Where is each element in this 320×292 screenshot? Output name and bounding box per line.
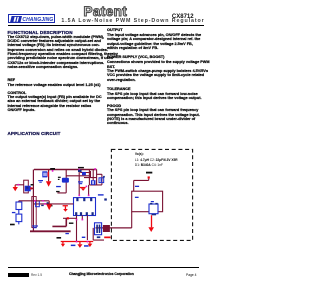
label node B xyxy=(78,167,84,168)
wire inner loop xyxy=(66,170,102,185)
capacitor C8 electrolytic xyxy=(95,223,102,235)
pin 1 xyxy=(76,198,78,201)
wire red ground bus xyxy=(61,241,93,243)
pin 4 xyxy=(75,212,77,215)
capacitor C6 xyxy=(99,178,104,183)
wire SW out xyxy=(96,227,132,229)
option loop xyxy=(132,191,163,212)
label R3 xyxy=(41,205,44,206)
pin 5 xyxy=(80,212,82,215)
wire out right xyxy=(93,228,104,240)
title xyxy=(61,18,204,24)
node J12 magenta xyxy=(82,219,84,221)
wire option link xyxy=(131,212,133,228)
APPLICATION CIRCUIT heading xyxy=(8,131,61,136)
wire to C5 xyxy=(92,170,94,181)
FUNCTIONAL DESCRIPTION heading xyxy=(8,30,73,35)
left column paragraph 1 xyxy=(8,35,118,70)
part number xyxy=(172,14,194,20)
label U1 VOUT xyxy=(98,194,104,195)
label c9v xyxy=(151,201,154,202)
label C9 xyxy=(135,186,139,187)
transistor Q1 xyxy=(62,178,69,183)
ground G6 xyxy=(79,242,81,245)
svg-text:D1: B340A C4: 1nF: D1: B340A C4: 1nF xyxy=(135,163,163,167)
ground G9 xyxy=(151,215,153,227)
capacitor C7 xyxy=(32,225,38,226)
node J2 magenta xyxy=(78,169,80,171)
ground G5 red bar xyxy=(104,237,110,239)
left column CONTROL xyxy=(8,91,27,95)
wire option in xyxy=(134,179,149,192)
wire U1 pin5 down xyxy=(81,215,83,219)
wire ground bus xyxy=(30,230,71,232)
node J9 magenta xyxy=(34,200,36,202)
wire left loop xyxy=(32,197,36,228)
node J5 magenta xyxy=(86,186,88,188)
label L2 xyxy=(135,197,139,198)
wire divider top xyxy=(19,201,49,202)
wire top right jog xyxy=(80,171,96,178)
wire to IC pin VIN xyxy=(78,170,80,196)
transistor Q2 xyxy=(25,186,31,192)
label C6 xyxy=(103,176,105,178)
dashed option box xyxy=(111,149,192,240)
patent watermark xyxy=(84,4,128,19)
wire branch x66 xyxy=(57,170,66,193)
node J8 magenta xyxy=(44,203,46,205)
logo xyxy=(8,14,55,23)
node A red xyxy=(30,187,32,189)
pin 3 xyxy=(90,198,92,201)
resistor R3 xyxy=(36,201,40,207)
node J4 magenta xyxy=(18,184,20,186)
node J13 magenta xyxy=(76,241,78,243)
ground G4 xyxy=(48,201,50,205)
wire to IC pin BST xyxy=(88,185,90,195)
label comp xyxy=(69,223,74,224)
wire comp xyxy=(63,217,77,219)
wire FB to U1 xyxy=(33,203,73,205)
footer left black bar xyxy=(8,273,29,276)
capacitor C4 xyxy=(78,181,83,182)
svg-text:Vo(s):: Vo(s): xyxy=(135,152,144,156)
capacitor C2 xyxy=(42,171,47,177)
label R2 xyxy=(10,224,15,226)
wire R1-R2 xyxy=(18,210,20,225)
node J7 magenta xyxy=(88,195,90,197)
node J3 magenta xyxy=(94,168,96,170)
label C2 xyxy=(50,168,55,170)
node J11 magenta xyxy=(76,219,78,221)
node J10 magenta xyxy=(42,200,44,202)
node C red xyxy=(67,217,69,219)
node J1 magenta xyxy=(52,170,54,172)
label SW xyxy=(57,237,62,239)
label C8 xyxy=(97,236,101,238)
label GND xyxy=(56,191,60,192)
node D red xyxy=(148,176,150,178)
label SW tick xyxy=(104,198,107,200)
label C7 xyxy=(65,233,69,234)
label VIN tick xyxy=(146,172,152,174)
node J6 magenta xyxy=(78,195,80,197)
pin 7 xyxy=(92,212,94,215)
wire U1 pin4 down xyxy=(76,215,78,241)
wire input xyxy=(15,184,24,186)
label FB xyxy=(47,202,49,203)
pin 6 xyxy=(86,212,88,215)
label VCC xyxy=(56,186,61,187)
resistor R2 xyxy=(16,214,22,222)
wire U1 pin6 down xyxy=(86,215,88,240)
capacitor C5 xyxy=(91,180,96,185)
wire node A to rail xyxy=(31,187,33,189)
resistor R1 xyxy=(16,202,22,210)
diode D1 xyxy=(103,225,110,232)
diode D2 xyxy=(82,172,86,175)
inductor L1 frame xyxy=(24,180,29,193)
svg-text:L1: 4.7μH C2: 22μF/6.3V X5R: L1: 4.7μH C2: 22μF/6.3V X5R xyxy=(135,158,178,162)
right column xyxy=(107,28,123,32)
wire top supply bus xyxy=(34,169,97,171)
ground G3 xyxy=(80,187,86,188)
red T arrow EN xyxy=(63,205,68,206)
ground G1 input xyxy=(13,187,18,191)
label R1 xyxy=(12,212,16,213)
footer rule xyxy=(8,267,200,268)
left column REF xyxy=(8,78,16,82)
pin 2 xyxy=(83,198,85,201)
node J14 magenta xyxy=(87,241,89,243)
label Q1 xyxy=(58,177,61,178)
op-amp U1 body xyxy=(74,198,96,216)
wire left rail xyxy=(32,170,34,232)
node B navy xyxy=(78,170,82,172)
ground G8 xyxy=(62,242,64,244)
label G6 xyxy=(82,237,86,238)
label Q2 xyxy=(31,184,34,186)
label CO2 xyxy=(84,245,89,247)
ground G7 xyxy=(89,242,91,244)
header rule xyxy=(8,25,205,26)
capacitor C9 xyxy=(149,204,158,214)
ground G2 xyxy=(48,170,50,182)
capacitor C3 xyxy=(38,180,43,181)
label CO1 xyxy=(71,245,76,247)
wire gnd stub xyxy=(52,218,66,226)
